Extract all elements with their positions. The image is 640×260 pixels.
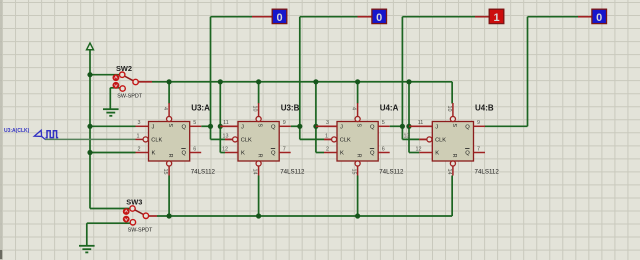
wire: J feed red U4:B <box>409 125 432 127</box>
logic probe 2 (state 0) <box>372 9 387 24</box>
node Q1: vertical to indicator row <box>299 17 301 127</box>
wire: left power bus vertical <box>89 50 91 209</box>
JK flip-flop U3:A 74LS112 <box>136 103 216 176</box>
switch SW2 SW-SPDT <box>113 64 143 100</box>
svg-text:74LS112: 74LS112 <box>475 169 500 176</box>
svg-text:5: 5 <box>382 120 385 126</box>
svg-text:6: 6 <box>382 146 385 152</box>
node Q0: wire U3:A Q to junction <box>201 125 210 127</box>
junction: S-bus / U3:B JK drop <box>218 79 223 84</box>
junction: S-bus / U4:A S <box>355 79 360 84</box>
U4:A pin Q stub <box>378 125 390 127</box>
junction: Q2 node <box>400 124 405 129</box>
SW2 actuator down button <box>113 82 120 89</box>
wire: S-bus drop to U4:A S pin <box>357 82 359 104</box>
svg-text:U3:B: U3:B <box>281 104 300 113</box>
U4:A pin S stub and bubble <box>357 103 359 116</box>
svg-text:Q: Q <box>370 151 375 157</box>
svg-text:7: 7 <box>283 146 286 152</box>
SW3 top throw terminal <box>130 206 135 211</box>
node Q1: wire U3:B Q to junction <box>291 125 300 127</box>
switch SW3 SW-SPDT <box>123 198 153 234</box>
svg-text:S: S <box>451 123 457 127</box>
U4:B pin K stub <box>419 152 432 154</box>
svg-text:11: 11 <box>418 120 424 126</box>
wire: SW2 bottom throw to ground <box>110 87 119 89</box>
U3:A pin Qbar stub <box>190 152 202 154</box>
wire: U3:B CLK red stub piece <box>225 138 233 140</box>
wire: S-bus drop to U3:B S pin <box>258 82 260 104</box>
svg-text:K: K <box>340 151 344 157</box>
U4:B pin Q stub <box>474 125 486 127</box>
svg-text:2: 2 <box>138 146 141 152</box>
junction: R-bus / U4:A R <box>355 213 360 218</box>
wire: J feed red U3:B <box>220 125 238 127</box>
node Q2: wire U4:A Q to junction <box>390 125 403 127</box>
junction: S-bus / U4:A JK drop <box>313 79 318 84</box>
svg-text:SW-SPDT: SW-SPDT <box>117 94 142 100</box>
junction: power bus / U3:A J <box>87 124 92 129</box>
svg-text:74LS112: 74LS112 <box>191 169 216 176</box>
wire: SW3 pole stub (red) <box>148 215 157 217</box>
U4:B pin S stub and bubble <box>452 103 454 116</box>
svg-text:11: 11 <box>223 120 229 126</box>
U4:B pin R stub and bubble <box>450 161 455 166</box>
junction: U4:A J node <box>313 124 318 129</box>
U3:A pin S stub and bubble <box>168 103 170 116</box>
U3:A pin CLK stub and bubble <box>136 138 144 140</box>
U3:B pin J stub <box>225 125 238 127</box>
svg-text:13: 13 <box>223 133 229 139</box>
junction: S-bus / U3:A S <box>167 79 172 84</box>
svg-text:CLK: CLK <box>340 138 351 144</box>
svg-text:SW2: SW2 <box>116 64 132 73</box>
U3:B pin K stub <box>225 152 238 154</box>
svg-text:15: 15 <box>351 169 357 175</box>
node Q1: drop to U4:A CLK <box>299 126 301 139</box>
node Q3: horizontal to logic probe 4 <box>528 16 579 18</box>
svg-text:Q: Q <box>465 124 470 130</box>
junction: S-bus / U4:B JK drop <box>406 79 411 84</box>
svg-text:Q: Q <box>370 124 375 130</box>
svg-text:Q: Q <box>271 151 276 157</box>
svg-text:0: 0 <box>276 12 282 24</box>
svg-text:SW-SPDT: SW-SPDT <box>128 228 153 234</box>
svg-text:J: J <box>152 124 155 130</box>
svg-text:CLK: CLK <box>151 138 162 144</box>
wire: power bus to U3:A J <box>90 125 136 127</box>
SW3 actuator up button <box>123 208 130 215</box>
wire: U3:B R drop <box>258 176 260 217</box>
U3:B pin R stub and bubble <box>256 161 261 166</box>
U3:B pin S stub and bubble <box>258 103 260 116</box>
U4:A pin CLK stub and bubble <box>324 138 332 140</box>
U3:B pin Qbar stub <box>279 152 291 154</box>
U4:B pin J stub <box>419 125 432 127</box>
svg-text:14: 14 <box>446 169 452 175</box>
junction: power bus / U3:A K <box>87 150 92 155</box>
wire: U4:A R drop <box>357 176 359 217</box>
svg-text:9: 9 <box>477 120 480 126</box>
svg-text:CLK: CLK <box>435 138 446 144</box>
svg-text:K: K <box>241 151 245 157</box>
clock generator symbol (DCLOCK) <box>34 130 58 139</box>
wire: power bus corner to SW3 top throw <box>90 208 130 210</box>
svg-text:10: 10 <box>446 106 452 112</box>
svg-text:R: R <box>257 154 263 158</box>
node Q2: red stub into probe 3 <box>475 16 489 18</box>
JK flip-flop U3:B 74LS112 <box>222 103 305 176</box>
svg-text:Q: Q <box>182 124 187 130</box>
wire: S-bus horizontal <box>152 81 452 83</box>
svg-text:0: 0 <box>596 12 602 24</box>
wire: S-bus drop to U4:B J and K <box>408 82 410 153</box>
SW3 lever <box>135 210 144 215</box>
svg-text:U3:A: U3:A <box>191 104 210 113</box>
node Q0: vertical to indicator row <box>210 17 212 127</box>
wire: J feed red U4:A <box>316 125 337 127</box>
svg-text:R: R <box>356 154 362 158</box>
power terminal (up arrow) <box>87 43 94 50</box>
wire: clock generator to U3:A CLK <box>45 138 136 140</box>
node Q2: drop to U4:B CLK <box>401 126 403 139</box>
junction: U4:B J node <box>406 124 411 129</box>
svg-text:U4:B: U4:B <box>475 104 494 113</box>
SW2 actuator up button <box>113 74 120 81</box>
svg-text:CLK: CLK <box>241 138 252 144</box>
node Q0: red stub into probe 1 <box>252 16 272 18</box>
U3:A pin R stub and bubble <box>167 161 172 166</box>
SW2 bottom throw terminal <box>120 86 125 91</box>
svg-text:J: J <box>241 124 244 130</box>
svg-text:1: 1 <box>493 12 499 24</box>
SW3 bottom throw terminal <box>130 220 135 225</box>
svg-text:14: 14 <box>252 168 258 174</box>
wire: R-bus horizontal <box>157 215 452 217</box>
svg-text:2: 2 <box>326 146 329 152</box>
wire: S-bus end corner down to U4:B S pin <box>451 82 453 104</box>
node Q3: red stub into probe 4 <box>578 16 592 18</box>
U4:A pin Qbar stub <box>378 152 390 154</box>
svg-text:S: S <box>257 123 263 127</box>
junction: Q1 node <box>297 124 302 129</box>
svg-text:R: R <box>451 154 457 158</box>
logic probe 3 (state 1) <box>489 9 504 24</box>
node Q2: horizontal to logic probe 3 <box>402 16 475 18</box>
node Q2: vertical to indicator row <box>401 17 403 127</box>
svg-text:74LS112: 74LS112 <box>280 169 305 176</box>
junction: R-bus / U3:B R <box>256 213 261 218</box>
wire: S-bus drop to U3:A S pin <box>168 82 170 104</box>
SW3 pole terminal <box>143 213 148 218</box>
ground (SW2) <box>103 109 119 116</box>
U3:B pin CLK stub and bubble <box>225 138 233 140</box>
svg-text:9: 9 <box>283 120 286 126</box>
svg-text:SW3: SW3 <box>126 198 142 207</box>
svg-text:Q: Q <box>271 124 276 130</box>
SW3 actuator down button <box>123 216 130 223</box>
svg-text:J: J <box>435 124 438 130</box>
svg-text:U4:A: U4:A <box>380 104 399 113</box>
logic probe 4 (state 0) <box>592 9 607 24</box>
logic probe 1 (state 0) <box>272 9 287 24</box>
wire: U4:B CLK red stub piece <box>419 138 427 140</box>
wire: R-bus end corner up to U4:B R pin <box>451 176 453 217</box>
svg-text:Q: Q <box>465 151 470 157</box>
svg-text:4: 4 <box>351 107 357 110</box>
svg-text:S: S <box>356 123 362 127</box>
JK flip-flop U4:A 74LS112 <box>324 103 404 176</box>
svg-text:6: 6 <box>193 146 196 152</box>
wire: power bus to U3:A K <box>90 152 136 154</box>
U3:B pin Q stub <box>279 125 291 127</box>
svg-text:0: 0 <box>376 12 382 24</box>
node Q1: horizontal to logic probe 2 <box>300 16 358 18</box>
U3:A pin J stub <box>136 125 149 127</box>
wire: S-bus drop to U3:B J and K <box>219 82 221 153</box>
svg-text:R: R <box>167 154 173 158</box>
U4:B pin CLK stub and bubble <box>419 138 427 140</box>
svg-text:5: 5 <box>193 120 196 126</box>
node Q0: drop to U3:B CLK <box>210 126 212 139</box>
junction: S-bus / U3:B S <box>256 79 261 84</box>
wire: SW3 bottom throw to ground <box>87 222 131 224</box>
svg-text:13: 13 <box>404 133 410 139</box>
SW2 top throw terminal <box>120 72 125 77</box>
U4:A pin J stub <box>324 125 337 127</box>
svg-text:3: 3 <box>138 120 141 126</box>
svg-text:7: 7 <box>477 146 480 152</box>
svg-text:3: 3 <box>326 120 329 126</box>
svg-text:1: 1 <box>137 133 140 139</box>
svg-text:1: 1 <box>325 133 328 139</box>
svg-text:74LS112: 74LS112 <box>379 169 404 176</box>
SW2 pole terminal <box>133 79 138 84</box>
svg-text:10: 10 <box>252 105 258 111</box>
wire: SW2 pole stub (red) <box>139 81 153 83</box>
U4:B pin Qbar stub <box>474 152 486 154</box>
wire: power bus to SW2 top throw <box>90 74 120 76</box>
U3:A pin K stub <box>136 152 149 154</box>
node Q1: red stub into probe 2 <box>358 16 372 18</box>
ground (SW3) <box>79 246 95 253</box>
svg-text:J: J <box>340 124 343 130</box>
wire: U3:A R drop <box>168 176 170 217</box>
U4:A pin R stub and bubble <box>355 161 360 166</box>
node Q3: wire U4:B Q to corner <box>485 125 528 127</box>
svg-text:12: 12 <box>222 146 228 152</box>
wire: S-bus drop to U4:A J and K <box>315 82 317 153</box>
junction: power bus / SW2 feed <box>87 72 92 77</box>
svg-text:Q: Q <box>182 151 187 157</box>
junction: U3:B J node <box>218 124 223 129</box>
svg-text:K: K <box>435 151 439 157</box>
wire: U4:A CLK red stub piece <box>324 138 332 140</box>
U4:A pin K stub <box>324 152 337 154</box>
svg-text:12: 12 <box>416 146 422 152</box>
JK flip-flop U4:B 74LS112 <box>404 103 500 176</box>
node Q0: horizontal to logic probe 1 <box>211 16 253 18</box>
SW2 lever <box>124 76 133 81</box>
svg-text:K: K <box>152 151 156 157</box>
junction: R-bus / U3:A R / SW3 pole <box>167 213 172 218</box>
U3:A pin Q stub <box>190 125 202 127</box>
svg-text:S: S <box>167 123 173 127</box>
junction: Q0 node <box>208 124 213 129</box>
svg-text:15: 15 <box>162 169 168 175</box>
svg-text:U3:A(CLK): U3:A(CLK) <box>4 128 30 134</box>
svg-text:4: 4 <box>162 107 168 110</box>
node Q3: vertical to indicator row <box>527 17 529 127</box>
